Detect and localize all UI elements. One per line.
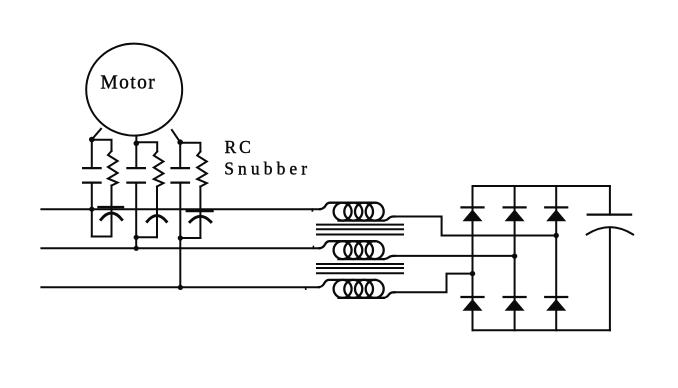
svg-text:Motor: Motor (100, 73, 156, 94)
tick on phase line 2 (312, 247, 314, 249)
node bridge leg3 midpoint (554, 233, 559, 238)
capacitor C1 (83, 168, 101, 183)
wire motor terminal 3 (172, 130, 180, 142)
diode D3 (545, 207, 567, 221)
wire snubber2 top branch (136, 142, 157, 151)
node snubber1 line1 junction (89, 207, 94, 212)
node snubber1 top (89, 137, 95, 143)
inductor L3 (319, 280, 395, 298)
node snubber3 top (177, 139, 183, 145)
node bridge leg1 midpoint (470, 271, 475, 276)
capacitor C4 top lead (609, 186, 611, 215)
line capacitor curved plate (snubber2 arc) (147, 216, 166, 222)
wire L3 output to bridge leg1 midpoint (395, 274, 473, 293)
wire R2 lower lead (156, 187, 158, 238)
wire snubber3 bottom (180, 237, 200, 239)
diode D5 (504, 297, 526, 311)
resistor R1 (108, 151, 118, 186)
wire bridge top rail (473, 185, 610, 187)
wire phase line 3 (41, 286, 319, 288)
capacitor C2 bottom lead (135, 183, 137, 249)
capacitor C3 top lead (179, 142, 181, 168)
capacitor C4 (DC bus) (587, 215, 633, 235)
diode D4 (462, 297, 484, 311)
label RC Snubber (224, 137, 311, 179)
wire snubber2 bottom (136, 236, 157, 238)
node snubber3 line3 junction (178, 285, 183, 290)
resistor R3 (197, 152, 207, 187)
wire bridge bottom rail (473, 329, 610, 331)
capacitor C1 bottom lead (91, 183, 93, 237)
capacitor C3 bottom lead (179, 183, 181, 288)
capacitor C2 top lead (135, 143, 137, 168)
capacitor C3 (172, 168, 190, 183)
node snubber2 bottom junction (134, 235, 139, 240)
wire snubber3 top branch (180, 143, 200, 152)
wire R3 lower lead (199, 187, 201, 239)
wire L2 output to bridge leg2 midpoint (395, 255, 515, 257)
line capacitor curved plate (snubber3 arc) (190, 216, 211, 222)
line capacitor plate (snubber3 flat plate) (187, 210, 213, 212)
resistor R2 (154, 152, 164, 187)
node snubber3 bottom junction (178, 235, 183, 240)
line capacitor curved plate (snubber1 arc) (101, 213, 122, 220)
wire phase line 2 (41, 247, 319, 249)
motor M1 (86, 44, 182, 136)
diode D6 (545, 297, 567, 311)
core of L1/L2 (317, 225, 403, 235)
capacitor C2 (127, 168, 144, 183)
svg-text:Snubber: Snubber (224, 159, 311, 179)
tick on phase line 1 (311, 209, 313, 211)
node snubber2 line2 junction (134, 246, 139, 251)
node bridge leg2 midpoint (512, 253, 517, 258)
diode D1 (462, 207, 484, 221)
wire R1 lower lead (111, 186, 113, 237)
diode D2 (504, 207, 526, 221)
wire L1 output to bridge leg3 midpoint (395, 217, 557, 236)
capacitor C4 bottom lead (609, 228, 611, 331)
wire motor terminal 1 (92, 129, 101, 140)
wire snubber1 top branch (92, 140, 112, 151)
inductor L2 (320, 241, 395, 259)
line capacitor plate (snubber1 flat plate) (99, 206, 124, 208)
svg-text:RC: RC (225, 137, 254, 157)
wire motor terminal 2 (135, 136, 137, 143)
wire bridge leg3 (555, 186, 557, 330)
core of L2/L3 (317, 264, 403, 273)
wire bridge leg2 (514, 186, 516, 330)
tick on phase line 3 (305, 287, 307, 289)
capacitor C1 top lead (91, 140, 93, 169)
wire bridge leg1 (472, 186, 474, 330)
wire phase line 1 (41, 208, 320, 210)
wire snubber1 bottom (92, 236, 112, 238)
node snubber2 top (134, 141, 140, 147)
inductor L1 (320, 203, 395, 221)
